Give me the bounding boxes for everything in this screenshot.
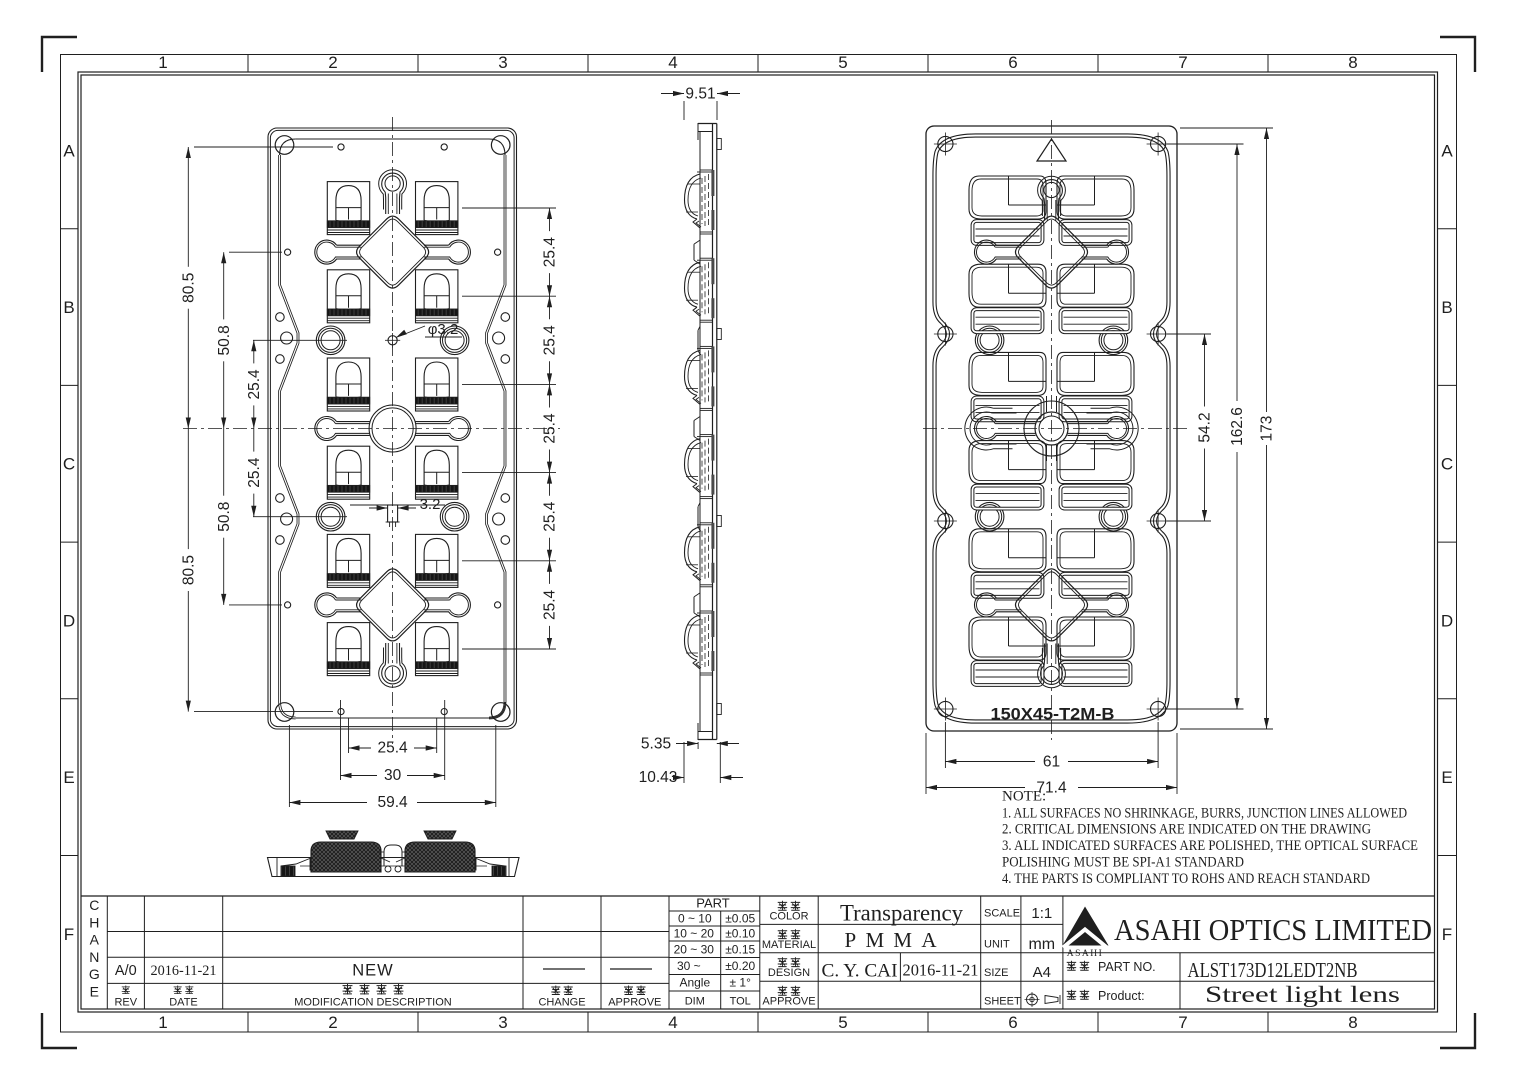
- svg-text:Street light lens: Street light lens: [1205, 982, 1400, 1007]
- svg-text:6: 6: [1008, 53, 1017, 72]
- svg-text:6: 6: [1008, 1013, 1017, 1032]
- svg-text:H: H: [89, 914, 99, 930]
- svg-text:7: 7: [1178, 53, 1187, 72]
- svg-text:±0.15: ±0.15: [725, 943, 755, 957]
- right view: top keyhole: [1038, 176, 1066, 220]
- svg-text:2. CRITICAL DIMENSIONS ARE IND: 2. CRITICAL DIMENSIONS ARE INDICATED ON …: [1002, 822, 1371, 838]
- side view: lens profile bumps: [685, 174, 701, 219]
- right view: orientation triangle mark: [1037, 139, 1066, 161]
- extension line: [462, 207, 556, 209]
- color/material/design/approve labels: [778, 901, 787, 911]
- svg-text:φ3.2: φ3.2: [428, 321, 459, 338]
- extension line: [462, 472, 556, 474]
- svg-text:54.2: 54.2: [1197, 412, 1214, 442]
- svg-text:150X45-T2M-B: 150X45-T2M-B: [991, 706, 1115, 724]
- svg-text:0 ~ 10: 0 ~ 10: [678, 912, 712, 926]
- projection symbols: [1027, 994, 1038, 1005]
- left view: plate outer outline (double): [268, 128, 517, 729]
- svg-text:2016-11-21: 2016-11-21: [903, 961, 979, 980]
- svg-text:E: E: [63, 768, 74, 787]
- svg-text:D: D: [1441, 611, 1453, 630]
- svg-text:REV: REV: [114, 997, 137, 1009]
- right view: inner scalloped outline: [935, 136, 976, 722]
- left view: side boss hole clusters: [276, 313, 285, 322]
- svg-text:2: 2: [328, 53, 337, 72]
- svg-text:B: B: [1441, 298, 1452, 317]
- svg-text:mm: mm: [1028, 936, 1055, 953]
- left view: center pilot hole phi3.2: [388, 336, 397, 345]
- svg-text:59.4: 59.4: [378, 794, 409, 811]
- dimension 50.8 lower: [223, 429, 225, 496]
- left view: top keyhole slot: [379, 170, 407, 214]
- svg-text:E: E: [1441, 768, 1452, 787]
- right view: mounting holes with crosshairs: [938, 136, 953, 151]
- svg-text:10.43: 10.43: [639, 769, 678, 786]
- side view: mounting bosses: [717, 139, 722, 150]
- right view: lens pillows and retaining bars: [969, 176, 1046, 219]
- svg-text:1: 1: [158, 1013, 167, 1032]
- svg-text:G: G: [89, 966, 100, 982]
- dimension 5.35: [697, 742, 699, 749]
- svg-text:±0.10: ±0.10: [725, 927, 755, 941]
- right view: bottom keyhole: [1038, 644, 1066, 688]
- svg-text:UNIT: UNIT: [984, 939, 1010, 951]
- svg-text:8: 8: [1348, 1013, 1357, 1032]
- svg-text:1:1: 1:1: [1031, 905, 1052, 922]
- svg-text:30: 30: [384, 767, 402, 784]
- svg-text:±0.20: ±0.20: [725, 959, 755, 973]
- extension line: [462, 295, 556, 297]
- svg-text:C. Y. CAI: C. Y. CAI: [822, 961, 898, 982]
- svg-text:4. THE PARTS IS COMPLIANT TO R: 4. THE PARTS IS COMPLIANT TO ROHS AND RE…: [1002, 871, 1370, 887]
- bottom auxiliary view: left lens block: [311, 842, 381, 872]
- right view: large through holes: [975, 326, 1004, 355]
- left view: bottom keyhole slot: [379, 643, 407, 687]
- svg-text:TOL: TOL: [730, 996, 751, 1008]
- svg-text:20 ~ 30: 20 ~ 30: [674, 943, 715, 957]
- svg-text:E: E: [90, 984, 99, 1000]
- right view: outer outline: [926, 126, 1177, 731]
- dimension 71.4: [925, 733, 927, 794]
- svg-text:25.4: 25.4: [378, 740, 409, 757]
- svg-text:A: A: [90, 932, 100, 948]
- svg-text:ALST173D12LEDT2NB: ALST173D12LEDT2NB: [1188, 958, 1358, 982]
- left view: center lines: [392, 117, 394, 744]
- right view: central boss outline: [1024, 401, 1079, 456]
- svg-text:D: D: [63, 611, 75, 630]
- svg-text:162.6: 162.6: [1229, 407, 1246, 446]
- dimension 25.4 lower: [253, 429, 255, 452]
- right view: center lines: [1051, 120, 1053, 740]
- svg-text:A: A: [63, 141, 75, 160]
- left view: plate inner outline with side chevrons: [280, 155, 298, 718]
- svg-text:SCALE: SCALE: [984, 908, 1020, 920]
- svg-text:A/0: A/0: [115, 963, 137, 979]
- bottom dimension 59.4: [288, 725, 290, 807]
- svg-text:5.35: 5.35: [641, 736, 671, 753]
- dimension 10.43: [683, 742, 685, 783]
- svg-text:9.51: 9.51: [685, 86, 715, 103]
- svg-text:A: A: [1441, 141, 1453, 160]
- left view: group 3 diamond: [357, 569, 429, 641]
- extension line: [462, 648, 556, 650]
- svg-text:25.4: 25.4: [542, 501, 559, 532]
- bottom auxiliary view: right lens block: [405, 842, 475, 872]
- bottom dimension 30: [340, 700, 342, 780]
- dimension 173: [1180, 127, 1273, 129]
- right-side 25.4 chain dimension: [549, 208, 551, 231]
- left view: corner mounting holes: [275, 136, 294, 155]
- bottom auxiliary view: base strip: [268, 858, 520, 877]
- svg-text:80.5: 80.5: [181, 273, 198, 303]
- left view: central circle boss: [369, 405, 416, 452]
- svg-text:N: N: [89, 949, 99, 965]
- inner border double line: [78, 72, 1438, 1012]
- svg-text:Angle: Angle: [679, 976, 710, 990]
- svg-text:25.4: 25.4: [246, 369, 263, 400]
- svg-text:DIM: DIM: [685, 996, 705, 1008]
- svg-text:8: 8: [1348, 53, 1357, 72]
- right view: middle bone outer contours: [970, 412, 1016, 445]
- svg-text:SIZE: SIZE: [984, 967, 1008, 979]
- left view: 12 lens cells: [327, 182, 369, 235]
- svg-text:F: F: [64, 925, 74, 944]
- dimension 50.8 upper: [223, 252, 225, 319]
- dimension 162.6: [1167, 143, 1244, 145]
- extension line: [462, 383, 556, 385]
- svg-text:POLISHING MUST BE SPI-A1 STAND: POLISHING MUST BE SPI-A1 STANDARD: [1002, 854, 1244, 870]
- dimension 25.4 upper: [253, 340, 255, 363]
- svg-text:± 1°: ± 1°: [729, 976, 751, 990]
- svg-text:NEW: NEW: [352, 962, 394, 980]
- side view: hatch bar strips (edge-on): [711, 170, 714, 196]
- svg-text:COLOR: COLOR: [769, 911, 808, 923]
- svg-text:2: 2: [328, 1013, 337, 1032]
- svg-text:10 ~ 20: 10 ~ 20: [674, 927, 715, 941]
- svg-text:7: 7: [1178, 1013, 1187, 1032]
- left view: small alignment holes: [338, 144, 344, 150]
- extension line: [462, 560, 556, 562]
- svg-text:1. ALL SURFACES NO SHRINKAGE,: 1. ALL SURFACES NO SHRINKAGE, BURRS, JUN…: [1002, 806, 1407, 822]
- svg-text:APPROVE: APPROVE: [608, 997, 661, 1009]
- svg-text:PMMA: PMMA: [845, 928, 938, 952]
- side view: front face plane: [699, 132, 701, 732]
- leader phi 3.2: [396, 330, 407, 338]
- svg-text:25.4: 25.4: [542, 237, 559, 268]
- svg-text:APPROVE: APPROVE: [762, 996, 815, 1008]
- dimension 3.2 tab: [377, 505, 388, 510]
- svg-text:DATE: DATE: [169, 997, 198, 1009]
- svg-text:Transparency: Transparency: [840, 901, 963, 926]
- svg-text:25.4: 25.4: [542, 413, 559, 444]
- svg-text:4: 4: [668, 53, 677, 72]
- left view: dog-bone slots: [315, 240, 362, 264]
- svg-text:CHANGE: CHANGE: [538, 997, 585, 1009]
- left view: center tab 3.2: [388, 505, 398, 522]
- dimension 80.5 lower: [187, 429, 189, 550]
- right view: diamonds: [1016, 216, 1088, 288]
- side view: back plate: [712, 124, 714, 740]
- svg-text:MATERIAL: MATERIAL: [762, 939, 816, 951]
- dimension 80.5 upper: [187, 147, 189, 267]
- dimension 54.2: [1167, 333, 1211, 335]
- dimension 9.51: [683, 101, 685, 120]
- bottom auxiliary view: center post: [384, 845, 402, 866]
- svg-text:5: 5: [838, 1013, 847, 1032]
- svg-text:2016-11-21: 2016-11-21: [151, 963, 217, 979]
- svg-text:DESIGN: DESIGN: [768, 967, 810, 979]
- svg-text:Product:: Product:: [1098, 989, 1145, 1003]
- left view: group 1 diamond: [357, 216, 429, 288]
- svg-text:F: F: [1442, 925, 1452, 944]
- svg-text:30 ~: 30 ~: [677, 959, 701, 973]
- bottom auxiliary view: hatched feet: [281, 866, 295, 876]
- svg-text:25.4: 25.4: [246, 457, 263, 488]
- ASAHI logo: [1063, 907, 1109, 946]
- svg-text:±0.05: ±0.05: [725, 912, 755, 926]
- svg-text:25.4: 25.4: [542, 589, 559, 620]
- svg-text:50.8: 50.8: [216, 502, 233, 532]
- svg-text:80.5: 80.5: [180, 555, 197, 585]
- svg-text:C: C: [63, 455, 75, 474]
- svg-text:1: 1: [158, 53, 167, 72]
- bottom dimension 25.4: [348, 718, 350, 753]
- svg-text:C: C: [89, 897, 99, 913]
- left view: large through holes (double circles): [316, 326, 345, 355]
- title block: frame lines: [81, 895, 1435, 897]
- svg-text:4: 4: [668, 1013, 677, 1032]
- svg-text:ASAHI: ASAHI: [1067, 949, 1104, 959]
- side view: end tabs: [698, 124, 713, 132]
- product row: [1067, 990, 1076, 1000]
- svg-text:B: B: [63, 298, 74, 317]
- svg-text:SHEET: SHEET: [984, 996, 1021, 1008]
- svg-text:61: 61: [1043, 754, 1060, 771]
- svg-text:50.8: 50.8: [216, 325, 233, 355]
- sheet border corner marks: [42, 37, 77, 72]
- svg-text:A4: A4: [1033, 964, 1051, 981]
- dimension 61: [944, 722, 946, 768]
- svg-text:5: 5: [838, 53, 847, 72]
- right view: dog bones: [974, 240, 1021, 264]
- svg-text:3. ALL INDICATED SURFACES ARE: 3. ALL INDICATED SURFACES ARE POLISHED, …: [1002, 838, 1418, 854]
- svg-text:173: 173: [1259, 416, 1276, 442]
- svg-text:ASAHI OPTICS LIMITED: ASAHI OPTICS LIMITED: [1114, 912, 1432, 947]
- svg-text:C: C: [1441, 455, 1453, 474]
- part no row: [1067, 961, 1076, 971]
- svg-text:3: 3: [498, 1013, 507, 1032]
- side view: connectors between groups: [693, 244, 695, 260]
- svg-text:NOTE:: NOTE:: [1002, 789, 1046, 805]
- svg-text:PART: PART: [696, 896, 730, 911]
- svg-text:25.4: 25.4: [542, 325, 559, 356]
- svg-text:3.2: 3.2: [420, 496, 441, 513]
- svg-text:PART NO.: PART NO.: [1098, 960, 1156, 974]
- svg-text:MODIFICATION DESCRIPTION: MODIFICATION DESCRIPTION: [294, 997, 452, 1009]
- svg-text:3: 3: [498, 53, 507, 72]
- CJK labels (drawn placeholder strokes): [122, 986, 130, 995]
- right view: central boss circle: [1035, 412, 1068, 445]
